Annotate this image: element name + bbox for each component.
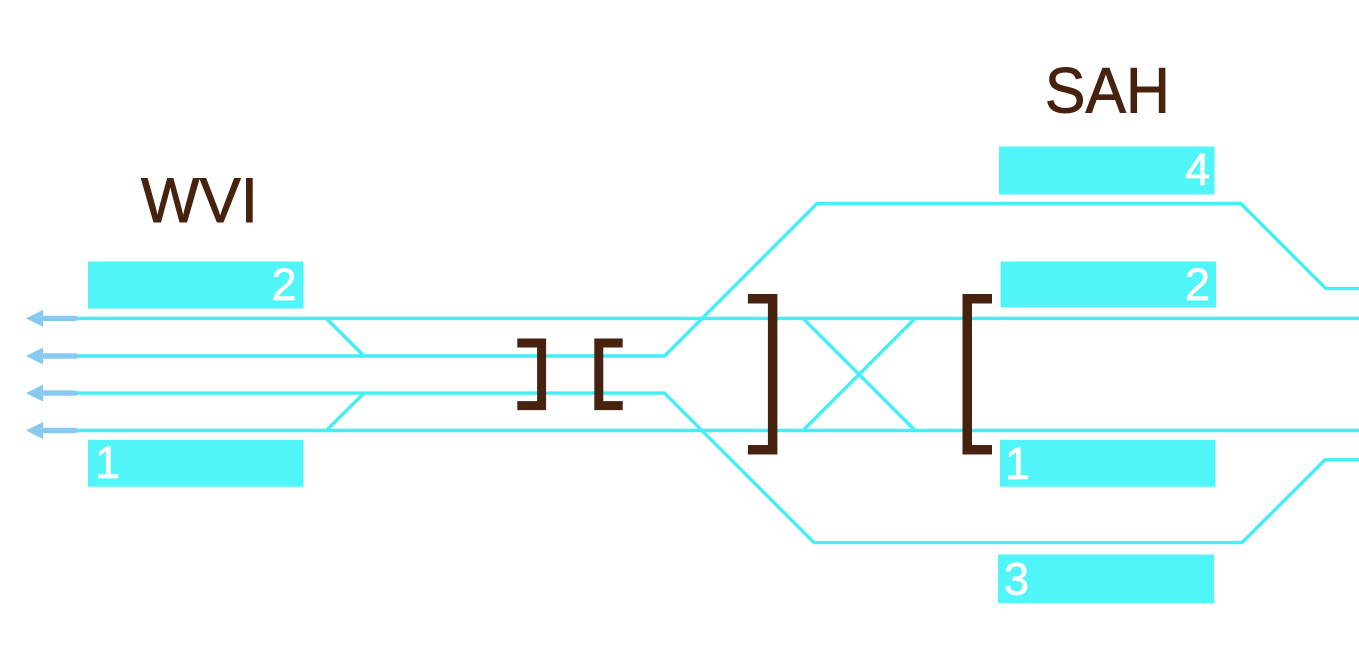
svg-text:1: 1 — [1005, 438, 1030, 489]
svg-text:2: 2 — [271, 259, 296, 310]
svg-text:3: 3 — [1004, 554, 1029, 605]
svg-text:4: 4 — [1185, 144, 1210, 195]
svg-text:WVI: WVI — [141, 166, 258, 236]
svg-text:1: 1 — [95, 437, 120, 488]
svg-text:SAH: SAH — [1045, 54, 1170, 126]
svg-text:2: 2 — [1185, 259, 1210, 310]
